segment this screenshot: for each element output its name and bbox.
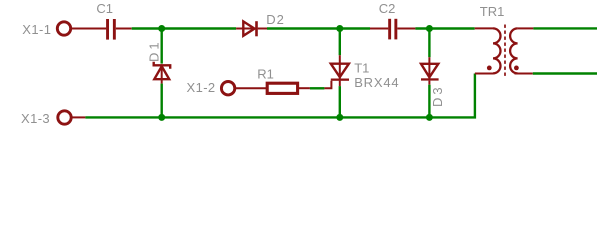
wire X1-1 pin to C1 left pin bbox=[71, 28, 106, 30]
junction T1/bottom rail bbox=[336, 114, 343, 121]
junction D2/C2/T1 node bbox=[336, 25, 343, 32]
transformer TR1 bbox=[475, 25, 534, 78]
diode D2 bbox=[236, 21, 267, 36]
label D1 (rotated) bbox=[146, 39, 161, 62]
wire X1-2 pin to R1 bbox=[235, 87, 267, 89]
wire X1-3 pin bbox=[71, 116, 85, 118]
net wire T1 cathode to bottom rail bbox=[339, 86, 341, 117]
label C1 bbox=[96, 1, 113, 16]
svg-text:X1-3: X1-3 bbox=[21, 111, 50, 126]
net wire D1 anode to bottom rail bbox=[160, 84, 162, 118]
thyristor T1 bbox=[324, 55, 349, 88]
terminal X1-3 bbox=[58, 111, 71, 124]
junction C2/D3 node bbox=[426, 25, 433, 32]
label T1 bbox=[354, 60, 369, 75]
net wire D2 to C2 bbox=[267, 27, 370, 29]
svg-text:R1: R1 bbox=[257, 67, 274, 82]
svg-text:X1-1: X1-1 bbox=[22, 22, 51, 37]
terminal X1-2 bbox=[221, 82, 234, 95]
junction D3/bottom rail bbox=[426, 114, 433, 121]
label R1 bbox=[257, 67, 274, 82]
terminal X1-1 bbox=[57, 22, 70, 35]
svg-text:BRX44: BRX44 bbox=[354, 75, 399, 90]
zener diode D1 bbox=[154, 62, 171, 84]
net wire D3 anode to bottom rail bbox=[428, 85, 430, 118]
net wire down to T1 anode bbox=[339, 29, 341, 56]
label C2 bbox=[379, 1, 396, 16]
net wire down to D3 cathode bbox=[428, 29, 430, 58]
svg-text:C1: C1 bbox=[96, 1, 113, 16]
svg-text:D3: D3 bbox=[430, 84, 445, 107]
svg-text:D1: D1 bbox=[146, 39, 161, 62]
svg-text:C2: C2 bbox=[379, 1, 396, 16]
label X1-3 bbox=[21, 111, 50, 126]
capacitor C2 bbox=[370, 19, 415, 40]
label D3 (rotated) bbox=[430, 84, 445, 107]
wire C1 right pin bbox=[116, 28, 132, 30]
label BRX44 bbox=[354, 75, 399, 90]
label TR1 bbox=[480, 4, 505, 19]
label X1-1 bbox=[22, 22, 51, 37]
net wire C1 to D2 bbox=[132, 27, 236, 29]
net wire C2 to TR1 bbox=[415, 27, 474, 29]
label X1-2 bbox=[187, 80, 216, 95]
svg-text:D2: D2 bbox=[266, 12, 285, 27]
svg-text:TR1: TR1 bbox=[480, 4, 505, 19]
svg-text:T1: T1 bbox=[354, 60, 369, 75]
svg-text:X1-2: X1-2 bbox=[187, 80, 216, 95]
capacitor C1 bbox=[106, 19, 116, 40]
resistor R1 bbox=[267, 83, 310, 93]
label D2 bbox=[266, 12, 285, 27]
net wire bottom rail to TR1 bbox=[85, 74, 475, 118]
net wire secondary top bbox=[533, 27, 597, 29]
net wire R1 to T1 gate bbox=[310, 87, 325, 89]
net wire secondary bottom bbox=[533, 72, 597, 74]
net wire down to D1 cathode bbox=[160, 29, 162, 64]
junction C1/D1 node bbox=[158, 25, 165, 32]
junction D1/bottom rail bbox=[158, 114, 165, 121]
diode D3 bbox=[421, 57, 439, 84]
